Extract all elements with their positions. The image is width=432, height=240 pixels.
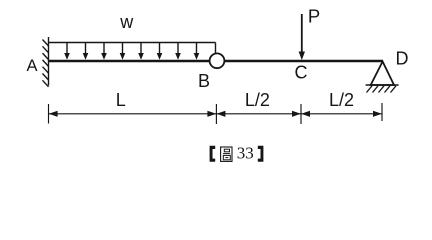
pin support ground line [366,84,399,86]
point load P arrow [299,14,305,60]
svg-text:P: P [308,5,320,26]
caption right bracket [258,146,264,162]
dimension line L/2 (B to C) with arrows [217,111,301,117]
dimension tick at A [48,104,50,124]
pin support hatching [367,86,397,93]
beam A to D [49,60,384,63]
distributed load arrow 3 [101,43,107,60]
distributed load arrow 7 [175,43,181,60]
distributed load arrow 4 [120,43,126,60]
svg-text:L/2: L/2 [329,90,354,110]
dimension line L with arrows [49,111,216,117]
svg-text:L/2: L/2 [245,90,270,110]
caption left bracket [210,146,216,162]
distributed load arrow 2 [83,43,89,60]
pin support at D triangle [371,62,394,86]
distributed load arrow 5 [138,43,144,60]
distributed load arrow 6 [157,43,163,60]
distributed load arrow 8 [194,43,200,60]
internal hinge B [210,53,225,68]
distributed load w top line [49,42,216,44]
fixed wall support at A [43,37,49,87]
svg-text:33: 33 [237,143,254,162]
dimension tick at C [300,104,302,124]
dimension tick at D [381,103,383,121]
svg-text:A: A [26,57,37,75]
svg-text:D: D [396,48,409,68]
svg-text:w: w [119,12,134,32]
svg-text:B: B [198,71,210,91]
svg-text:C: C [295,62,308,82]
caption glyph tu (figure) [221,147,232,161]
distributed load arrow 1 [64,43,70,60]
svg-text:L: L [116,90,126,110]
dimension tick at B [215,104,217,124]
distributed load right edge [215,43,217,54]
dimension line L/2 (C to D) with arrows [301,111,382,117]
